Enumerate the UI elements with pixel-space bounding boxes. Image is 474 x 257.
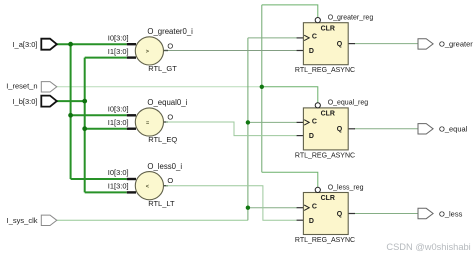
svg-text:D: D: [309, 218, 314, 225]
wire I_sys_clk horizontal: [57, 219, 248, 221]
svg-text:RTL_REG_ASYNC: RTL_REG_ASYNC: [295, 67, 355, 74]
junction I_a EQ branch: [68, 113, 73, 118]
wire reg2 Q to O_equal: [354, 128, 418, 130]
wire bus trunk B vertical (I_b): [84, 58, 86, 193]
svg-text:O_less0_i: O_less0_i: [147, 162, 182, 171]
junction I_a trunk: [68, 42, 73, 47]
port O_equal: [418, 124, 433, 134]
svg-text:O_less: O_less: [439, 209, 463, 218]
wire clock to reg2 C: [248, 121, 297, 123]
svg-text:I1[3:0]: I1[3:0]: [108, 47, 129, 56]
svg-text:RTL_REG_ASYNC: RTL_REG_ASYNC: [295, 237, 355, 244]
svg-text:Q: Q: [337, 211, 343, 218]
svg-text:I0[3:0]: I0[3:0]: [108, 168, 129, 177]
svg-text:RTL_REG_ASYNC: RTL_REG_ASYNC: [295, 152, 355, 159]
port O_greater: [418, 39, 433, 49]
wire GT output to reg1 D: [162, 50, 168, 52]
svg-text:I1[3:0]: I1[3:0]: [108, 118, 129, 127]
wire CLR net to reg2 bubble: [262, 87, 318, 103]
svg-text:O: O: [167, 176, 173, 185]
register O_greater_reg RTL_REG_ASYNC: [295, 15, 373, 75]
svg-text:CLR: CLR: [321, 111, 335, 118]
svg-text:O_equal_reg: O_equal_reg: [328, 100, 369, 107]
register O_equal_reg RTL_REG_ASYNC: [295, 100, 368, 160]
svg-text:I_a[3:0]: I_a[3:0]: [12, 40, 37, 49]
svg-text:CLR: CLR: [321, 25, 335, 32]
wire bus I_b branch to LT I1: [85, 191, 127, 193]
junction I_b trunk: [82, 99, 87, 104]
svg-text:I_sys_clk: I_sys_clk: [7, 216, 38, 225]
wire clock to reg1 C: [248, 37, 297, 39]
svg-text:CSDN @w0shishabi: CSDN @w0shishabi: [386, 242, 470, 252]
wire EQ output to reg2 D: [162, 121, 168, 123]
svg-text:RTL_EQ: RTL_EQ: [148, 135, 177, 144]
svg-text:I_reset_n: I_reset_n: [6, 82, 37, 91]
svg-text:RTL_LT: RTL_LT: [148, 199, 175, 208]
svg-text:C: C: [312, 34, 317, 41]
wire CLR trunk vertical: [261, 5, 263, 172]
port O_less: [418, 208, 433, 218]
wire bus I_b from port: [57, 100, 85, 102]
svg-text:O_equal0_i: O_equal0_i: [147, 98, 187, 107]
wire clock to reg3 C: [248, 207, 297, 209]
wire reg1 Q to O_greater: [354, 43, 418, 45]
svg-text:O_greater_reg: O_greater_reg: [328, 15, 374, 22]
wire CLR net to reg1 bubble: [262, 5, 318, 17]
svg-text:C: C: [312, 203, 317, 210]
svg-text:O_less_reg: O_less_reg: [328, 184, 364, 191]
svg-text:O_equal: O_equal: [439, 125, 468, 134]
port I_sys_clk: [41, 215, 57, 225]
wire bus trunk A vertical (I_a): [70, 44, 72, 179]
svg-text:I_b[3:0]: I_b[3:0]: [12, 97, 37, 106]
wire bus I_b branch to GT I1: [85, 57, 127, 59]
junction CLR x reset: [260, 85, 264, 89]
svg-text:>: >: [146, 49, 149, 55]
svg-text:<: <: [146, 184, 149, 190]
wire I_reset_n horizontal to CLR trunk: [57, 86, 262, 88]
svg-text:C: C: [312, 118, 317, 125]
svg-text:=: =: [146, 120, 149, 126]
svg-text:Q: Q: [337, 41, 343, 48]
svg-text:O: O: [167, 113, 173, 122]
svg-text:O_greater: O_greater: [439, 40, 473, 49]
svg-text:I1[3:0]: I1[3:0]: [108, 182, 129, 191]
junction clock reg2: [246, 120, 250, 124]
wire bus I_a branch to EQ I0: [71, 114, 127, 116]
wire CLR net to reg3 bubble: [262, 172, 318, 187]
svg-text:RTL_GT: RTL_GT: [148, 64, 177, 73]
svg-text:O_greater0_i: O_greater0_i: [147, 27, 193, 36]
svg-text:I0[3:0]: I0[3:0]: [108, 33, 129, 42]
port I_reset_n: [41, 82, 57, 92]
junction clock reg3: [246, 206, 250, 210]
wire bus I_b branch to EQ I1: [85, 128, 127, 130]
svg-text:I0[3:0]: I0[3:0]: [108, 105, 129, 114]
wire bus I_a to GT I0: [57, 43, 127, 45]
svg-text:D: D: [309, 48, 314, 55]
svg-text:CLR: CLR: [321, 195, 335, 202]
comparator RTL_GT instance O_greater0_i: [108, 27, 193, 73]
wire bus I_a branch to LT I0: [71, 178, 127, 180]
port I_a[3:0]: [41, 39, 57, 50]
svg-text:Q: Q: [337, 126, 343, 133]
wire LT output to reg3 D: [162, 185, 168, 187]
svg-text:O: O: [167, 41, 173, 50]
comparator RTL_EQ instance O_equal0_i: [108, 98, 188, 144]
svg-text:D: D: [309, 133, 314, 140]
register O_less_reg RTL_REG_ASYNC: [295, 184, 364, 244]
junction I_b EQ branch: [82, 126, 87, 131]
comparator RTL_LT instance O_less0_i: [108, 162, 183, 208]
wire clock trunk vertical: [247, 38, 249, 220]
wire reg3 Q to O_less: [354, 213, 418, 215]
port I_b[3:0]: [41, 96, 57, 107]
